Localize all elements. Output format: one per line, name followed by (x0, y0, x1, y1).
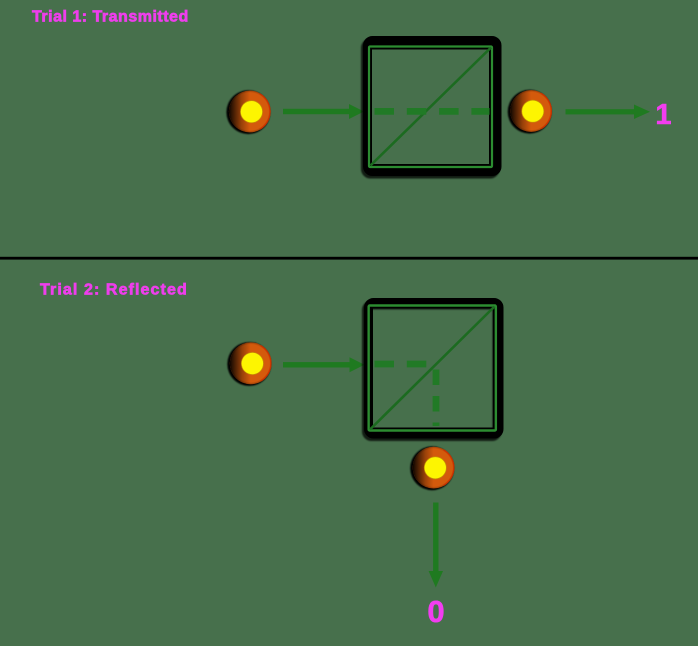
svg-text:1: 1 (655, 99, 671, 131)
dashed transmitted beam through BS1 (375, 108, 490, 115)
arrow A2 (output beam to result 1) (566, 105, 651, 120)
beam splitter BS1 (black frame) (368, 41, 498, 172)
arrow A4 (output beam down to result 0) (429, 503, 443, 588)
photon P2 (transmitted, top trial) (508, 90, 552, 134)
svg-text:Trial 1: Transmitted: Trial 1: Transmitted (32, 8, 189, 25)
arrow A3 (incoming beam, bottom trial) (283, 357, 365, 372)
divider line between trials (0, 257, 698, 260)
beam splitter BS2 (diagonal mirror) (370, 307, 495, 430)
title: Trial 1: Transmitted (32, 8, 189, 25)
photon P4 (reflected, bottom trial) (410, 446, 454, 490)
arrow A1 (incoming beam, top trial) (283, 104, 364, 119)
result label 0 (427, 594, 444, 629)
svg-text:0: 0 (427, 594, 444, 629)
dashed reflected beam down inside BS2 (433, 370, 440, 427)
beam splitter BS2 (black frame) (369, 303, 500, 435)
photon P1 (incoming, top trial) (226, 90, 270, 134)
result label 1 (655, 99, 671, 131)
beam splitter BS2 (green inner outline) (369, 306, 496, 431)
title: Trial 2: Reflected (40, 281, 188, 298)
photon P3 (incoming, bottom trial) (227, 342, 271, 386)
svg-text:Trial 2: Reflected: Trial 2: Reflected (40, 281, 188, 298)
beam splitter BS1 (diagonal mirror) (371, 48, 492, 166)
dashed incoming beam into BS2 (375, 361, 434, 368)
beam splitter BS1 (green inner outline) (369, 47, 492, 168)
